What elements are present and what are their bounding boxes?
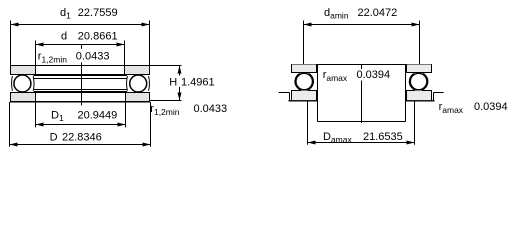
bottom washer bore line right (125, 93, 127, 102)
top washer right (right view) (407, 65, 432, 73)
centerline right view (361, 65, 363, 124)
raceway line lower (34, 91, 127, 93)
raceway line upper (34, 75, 127, 77)
housing recess wall left (289, 93, 291, 101)
svg-text:d 20.8661: d 20.8661 (61, 31, 118, 43)
dimension d extension right (124, 41, 126, 66)
shaft bottom edge (318, 121, 406, 123)
housing recess bottom right (406, 100, 435, 102)
label r12min top background (75, 49, 109, 63)
dimension d line (36, 44, 125, 46)
bottom washer right (right view) (407, 91, 432, 101)
dimension D1 arrow right (118, 123, 126, 127)
dimension d1 arrow left (11, 23, 19, 27)
dimension Damax arrow right (407, 141, 415, 145)
dimension d1 extension left (10, 21, 12, 66)
dimension D extension left (9, 102, 11, 147)
groove arc around left ball (right view) (295, 73, 313, 90)
bottom washer bottom edge emphasis (10, 101, 150, 103)
svg-text:D 22.8346: D 22.8346 (50, 131, 102, 143)
dimension d1 extension right (149, 21, 151, 66)
dimension D1 line (36, 124, 126, 126)
dimension damin extension left (303, 21, 305, 65)
dimension H arrow up (178, 66, 182, 74)
dimension D1 extension left (35, 102, 37, 128)
top washer bore line right (124, 66, 126, 75)
top washer shaded left section (11, 66, 36, 75)
housing face left (279, 92, 290, 94)
bottom washer shaded left section (11, 93, 36, 102)
dimension d1 line (11, 24, 150, 26)
dimension damin arrow left (304, 23, 312, 27)
groove edge arcs at left rim (11, 76, 14, 91)
top washer left (right view) (292, 65, 317, 73)
groove arc around right ball (right view) (409, 73, 427, 90)
dimension Damax extension right (414, 101, 416, 145)
groove arc around left ball (32, 76, 35, 91)
dimension D arrow right (143, 143, 151, 147)
bottom washer outline (11, 93, 150, 102)
groove arc around right ball (126, 76, 129, 91)
svg-text:H 1.4961: H 1.4961 (169, 76, 214, 88)
dimension d extension left (35, 41, 37, 66)
dimension d1 arrow right (142, 23, 150, 27)
groove edge arcs at right rim (148, 76, 151, 91)
cage line upper (34, 78, 127, 80)
dimension Damax extension left (307, 101, 309, 145)
ball left (right view) (296, 73, 312, 89)
dimension damin arrow right (412, 23, 420, 27)
housing recess bottom left (289, 100, 318, 102)
dimension Damax line (308, 142, 415, 144)
dimension d arrow right (117, 43, 125, 47)
ball right (right view) (410, 73, 426, 89)
centerline left view (81, 45, 83, 106)
dimension H line (179, 66, 181, 101)
bottom washer bore line left (35, 93, 37, 102)
dimension D line (10, 144, 151, 146)
housing recess wall right (433, 93, 435, 101)
dimension H arrow down (178, 93, 182, 101)
bottom washer left (right view) (292, 91, 317, 101)
dimension D arrow left (10, 143, 18, 147)
top washer shaded right section (125, 66, 150, 75)
dimension D1 extension right (125, 102, 127, 128)
dimension H extension bottom (150, 100, 182, 102)
shaft shoulder top line (291, 64, 432, 66)
shaft wall left (317, 65, 319, 122)
label ramax inner background (322, 69, 391, 81)
dimension Damax arrow left (308, 141, 316, 145)
ball left (14, 75, 31, 92)
housing face right (434, 92, 444, 94)
dimension D1 arrow left (36, 123, 44, 127)
dimension D extension right (150, 102, 152, 147)
dimension damin line (304, 24, 420, 26)
cage line lower (34, 89, 127, 91)
dimension H text background (167, 76, 214, 88)
dimension H extension top (150, 65, 182, 67)
shaft wall right (405, 65, 407, 122)
top washer bore line left (35, 66, 37, 75)
dimension damin extension right (419, 21, 421, 65)
ball right (130, 75, 147, 92)
bottom washer shaded right section (126, 93, 150, 102)
top washer outline (11, 66, 150, 75)
dimension d arrow left (36, 43, 44, 47)
